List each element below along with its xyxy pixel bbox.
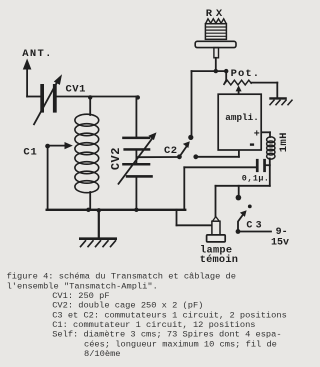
svg-text:0,1μ.: 0,1μ.: [242, 173, 270, 183]
svg-text:Self: diamètre 3 cms; 73 Spire: Self: diamètre 3 cms; 73 Spires dont 4 e…: [52, 330, 281, 340]
svg-text:RX: RX: [206, 8, 226, 20]
svg-text:l'ensemble "Tansmatch-Ampli".: l'ensemble "Tansmatch-Ampli".: [7, 281, 158, 291]
svg-text:C3: C3: [246, 221, 264, 232]
svg-text:figure 4: schéma du Transmatch: figure 4: schéma du Transmatch et câblag…: [7, 272, 236, 282]
svg-text:CV1: CV1: [66, 83, 86, 95]
svg-text:1mH: 1mH: [278, 132, 290, 152]
svg-text:C3 et C2: commutateurs 1 circu: C3 et C2: commutateurs 1 circuit, 2 posi…: [52, 310, 287, 320]
svg-text:CV2: CV2: [109, 147, 123, 170]
svg-text:CV2: double cage 250 x 2 (pF): CV2: double cage 250 x 2 (pF): [52, 301, 203, 311]
svg-text:C1: commutateur 1 circuit, 12: C1: commutateur 1 circuit, 12 positions: [52, 320, 255, 330]
svg-text:15v: 15v: [271, 238, 289, 249]
svg-text:témoin: témoin: [200, 254, 238, 266]
svg-text:8/10ème: 8/10ème: [84, 349, 121, 359]
svg-text:Pot.: Pot.: [231, 68, 261, 80]
svg-text:CV1: 250 pF: CV1: 250 pF: [52, 291, 109, 301]
svg-text:C1: C1: [23, 147, 37, 159]
svg-text:ANT.: ANT.: [22, 48, 52, 60]
svg-text:C2: C2: [164, 145, 178, 157]
svg-text:+: +: [254, 129, 260, 140]
svg-text:9-: 9-: [276, 227, 288, 238]
svg-text:ampli.: ampli.: [225, 112, 258, 123]
svg-text:cées; longueur maximum 10 cms;: cées; longueur maximum 10 cms; fil de: [84, 339, 277, 349]
